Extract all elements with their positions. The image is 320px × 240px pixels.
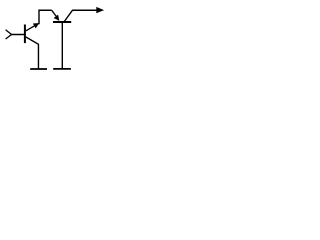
input port arrow — [6, 30, 12, 39]
transistor Q1 emitter arrowhead — [33, 23, 39, 28]
wire: Q2 base down to ground — [61, 23, 63, 70]
wire: input to Q1 base — [11, 34, 25, 36]
output arrowhead — [96, 7, 104, 13]
transistor Q2 collector and output wire — [64, 10, 96, 21]
transistor Q2 emitter arrowhead — [54, 15, 60, 21]
ground (right) — [53, 68, 71, 70]
wire: Q1 emitter rail up and top horizontal — [39, 10, 52, 24]
transistor Q1 emitter wire — [26, 24, 37, 30]
wire: Q1 collector down to ground — [26, 37, 39, 69]
transistor Q2 base bar — [53, 21, 71, 23]
transistor Q1 base bar — [24, 25, 26, 44]
ground (left) — [30, 68, 47, 70]
transistor Q2 emitter wire — [52, 10, 58, 17]
